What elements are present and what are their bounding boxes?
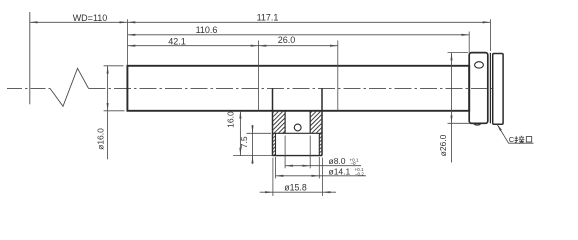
dimension 42.1 [128, 45, 259, 47]
dimension WD=110 [30, 21, 128, 23]
block bottom edge [273, 155, 323, 157]
dimension 7.5 (outside arrows) [251, 125, 253, 164]
dimension ø8.0 with tolerance [285, 165, 361, 167]
dimension 117.1 [128, 21, 491, 23]
svg-text:ø15.8: ø15.8 [284, 183, 307, 193]
svg-text:117.1: 117.1 [257, 13, 279, 23]
object plane vertical line (left, WD reference) [29, 12, 31, 104]
small bump under cylinder [473, 123, 481, 125]
C-mount leader line with arrow [497, 124, 534, 143]
dimension 26.0 [259, 45, 338, 47]
extension lines below skirt for ø14.1 [275, 157, 277, 178]
dimension 110.6 [128, 34, 470, 36]
svg-text:–0: –0 [351, 161, 357, 166]
svg-text:WD=110: WD=110 [73, 13, 108, 23]
svg-text:7.5: 7.5 [239, 136, 249, 148]
svg-text:26.0: 26.0 [278, 35, 296, 45]
dimension ø14.1 with tolerance [276, 175, 367, 177]
centerline (optical axis, dash-dot) [7, 87, 492, 89]
hatched band bottom shoulder line [273, 132, 323, 134]
extension line: 42.1/26.0 junction through tube [258, 41, 260, 111]
block bottom extension to the left (16.0 / 7.5 bottom) [233, 155, 273, 157]
rear cylinder shoulder ring line [489, 53, 491, 124]
clamp block upper hatched band (left) [273, 111, 286, 134]
extension line for 7.5 top [247, 132, 272, 134]
svg-text:–0.2: –0.2 [355, 172, 364, 177]
main tube body (ø16 barrel) [127, 66, 469, 111]
extension lines for ø15.8 [272, 158, 274, 196]
clamp block upper hatched band (right) [310, 111, 322, 134]
dimension ø26.0 [450, 53, 452, 163]
extension line: 26.0 right end through tube [337, 41, 339, 111]
extension lines for ø16 (tube front dia) [104, 65, 124, 67]
dimension ø15.8 (outside arrows) [260, 191, 336, 193]
extension lines for ø26 [448, 52, 469, 54]
extension line: cylinder front top [468, 32, 470, 53]
skirt inner wall edges (ø14.1 bore) [276, 133, 320, 155]
glyph 接 (hand-drawn strokes) [515, 136, 525, 144]
break/zigzag symbol on centerline [50, 68, 89, 106]
skirt thin wall hatch (right) [319, 133, 322, 155]
set-screw hole ellipse on cylinder [475, 62, 484, 68]
svg-text:ø14.1: ø14.1 [329, 166, 351, 176]
svg-text:C: C [509, 135, 515, 144]
extension line: tube front (top) [127, 19, 129, 65]
dimension ø16.0 [107, 66, 109, 160]
svg-text:16.0: 16.0 [226, 111, 236, 128]
C-mount flange ring [493, 54, 503, 125]
screw hole circle in block [294, 124, 301, 131]
rear cylinder body (ø26) [469, 53, 488, 124]
ø8 bore edges in block [285, 111, 310, 134]
extension lines below block for ø8 [284, 136, 286, 169]
skirt thin wall hatch (left) [273, 133, 276, 155]
clamp block outer edges (section, rising to axis) [273, 88, 323, 155]
svg-text:ø16.0: ø16.0 [95, 128, 105, 150]
svg-text:ø8.0: ø8.0 [329, 156, 346, 166]
extension line: flange shoulder top [490, 19, 492, 51]
svg-text:110.6: 110.6 [196, 25, 218, 35]
svg-text:ø26.0: ø26.0 [438, 134, 448, 156]
dimension 16.0 (block height) [239, 111, 241, 156]
svg-text:42.1: 42.1 [168, 36, 186, 46]
glyph 口 (box) [526, 137, 531, 142]
